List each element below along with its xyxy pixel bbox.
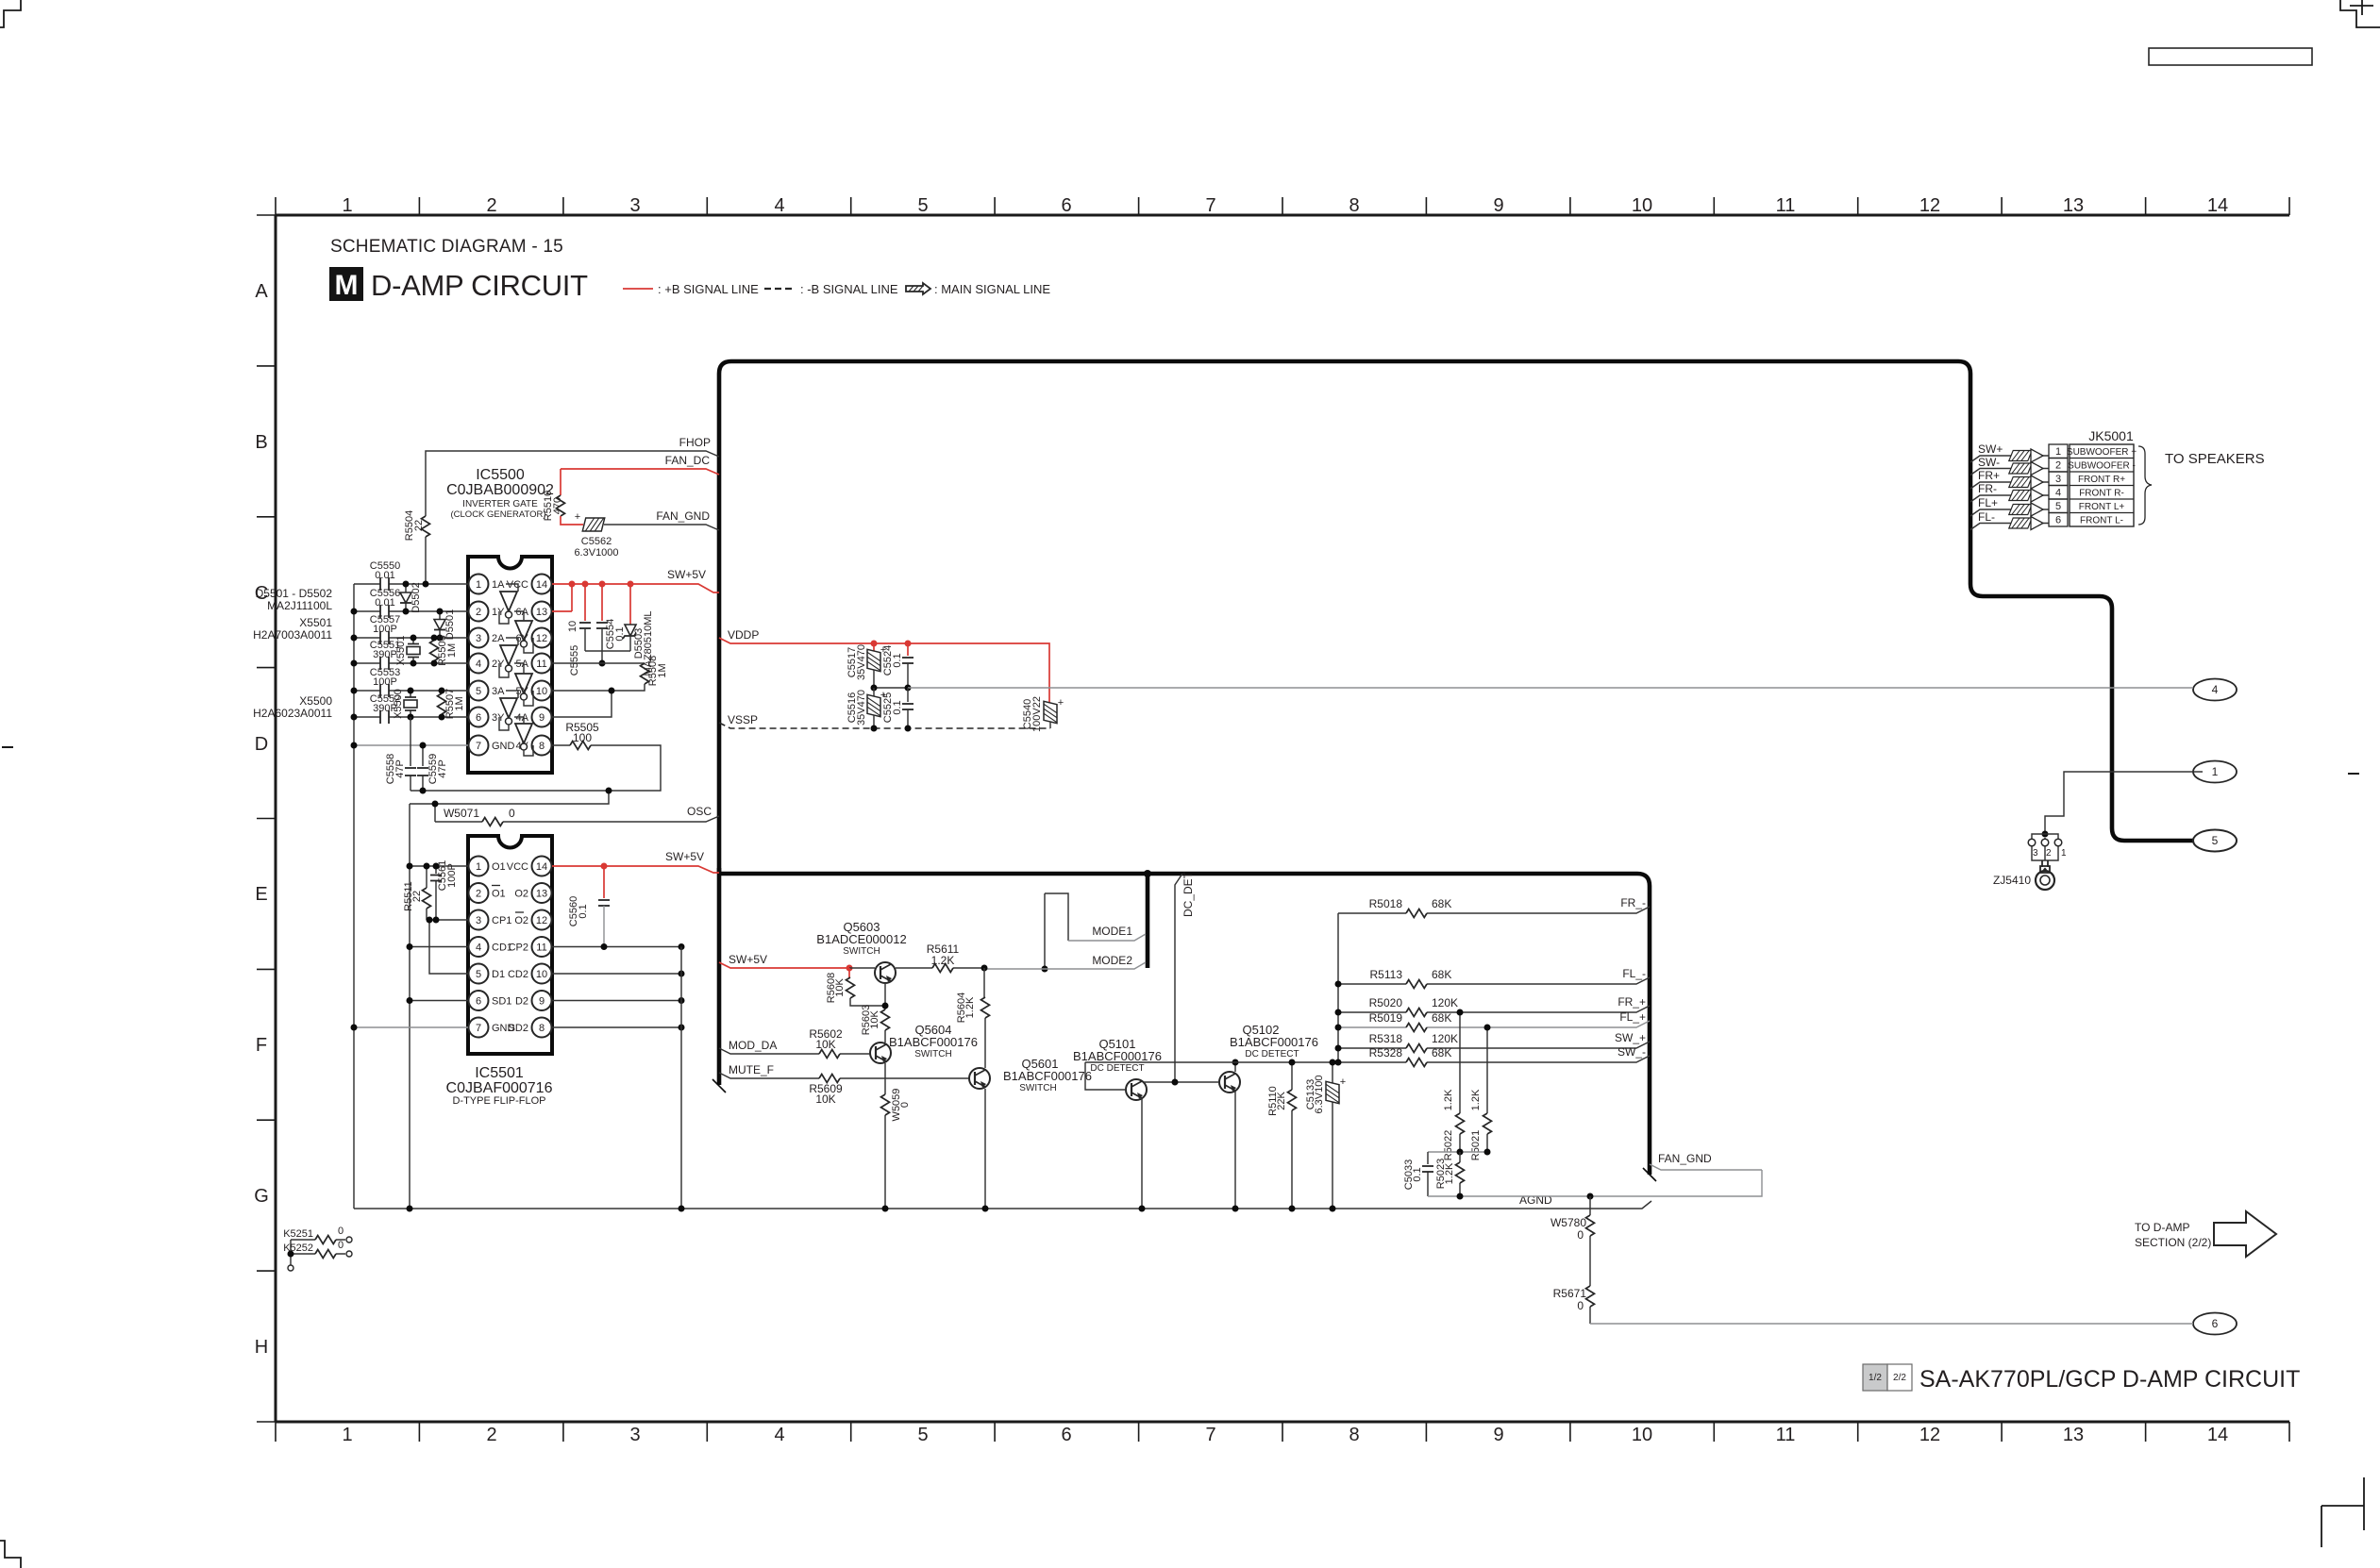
svg-text:SW+5V: SW+5V	[667, 568, 706, 581]
svg-text:120K: 120K	[1432, 996, 1458, 1009]
svg-text:D: D	[255, 734, 268, 755]
svg-text:O2: O2	[514, 915, 528, 926]
svg-text:+: +	[575, 511, 580, 523]
svg-text:R5318: R5318	[1369, 1032, 1403, 1045]
svg-text:1M: 1M	[454, 696, 465, 710]
svg-text:R5020: R5020	[1369, 996, 1403, 1009]
svg-text:FR_+: FR_+	[1617, 995, 1646, 1009]
svg-text:8: 8	[539, 741, 545, 752]
svg-text:SW-: SW-	[1978, 456, 2000, 469]
svg-text:C5555: C5555	[569, 645, 580, 676]
svg-text:H2A7003A0011: H2A7003A0011	[253, 628, 332, 642]
svg-text:0: 0	[338, 1226, 344, 1237]
svg-text:D5502: D5502	[411, 582, 422, 612]
svg-text:10K: 10K	[834, 978, 846, 997]
svg-text:0.01: 0.01	[375, 570, 394, 581]
svg-text:2A: 2A	[492, 633, 505, 644]
svg-text:100: 100	[573, 731, 592, 744]
svg-text:2: 2	[476, 607, 481, 618]
svg-text:0: 0	[1577, 1299, 1584, 1312]
svg-text:100P: 100P	[446, 863, 458, 888]
svg-text:1.2K: 1.2K	[931, 954, 955, 967]
svg-text:10K: 10K	[815, 1093, 835, 1106]
svg-text:6: 6	[476, 996, 481, 1008]
svg-text:47P: 47P	[437, 759, 448, 778]
svg-text:H: H	[255, 1337, 268, 1358]
svg-text:8: 8	[1349, 195, 1359, 216]
svg-text:2: 2	[2055, 460, 2061, 472]
svg-text:2/2: 2/2	[1893, 1373, 1906, 1383]
svg-text:3: 3	[2033, 848, 2038, 859]
svg-text:5: 5	[476, 969, 481, 980]
svg-text:7: 7	[476, 1023, 481, 1034]
svg-text:6: 6	[2212, 1317, 2219, 1330]
svg-text:FL_+: FL_+	[1619, 1010, 1646, 1024]
svg-text:FRONT R+: FRONT R+	[2078, 475, 2125, 485]
svg-text:10: 10	[536, 969, 547, 980]
svg-text:10: 10	[1632, 195, 1652, 216]
svg-text:B1ABCF000176: B1ABCF000176	[1073, 1049, 1162, 1063]
svg-text:1: 1	[2061, 848, 2067, 859]
svg-text:K5252: K5252	[283, 1243, 313, 1254]
svg-text:+: +	[1058, 697, 1064, 709]
svg-text:6: 6	[476, 712, 481, 724]
svg-text:SD2: SD2	[509, 1023, 528, 1034]
svg-text:VDDP: VDDP	[728, 628, 759, 642]
svg-text:12: 12	[1919, 1425, 1940, 1445]
svg-text:11: 11	[1776, 195, 1796, 216]
svg-text:0.1: 0.1	[614, 626, 626, 641]
svg-text:0: 0	[509, 807, 515, 820]
svg-text:2: 2	[2046, 848, 2052, 859]
svg-text:9: 9	[1493, 1425, 1503, 1445]
svg-text:TO D-AMP: TO D-AMP	[2135, 1221, 2189, 1234]
svg-text:SW+: SW+	[1978, 442, 2003, 456]
svg-text:MOD_DA: MOD_DA	[729, 1039, 777, 1052]
svg-text:1: 1	[342, 195, 352, 216]
svg-text:9: 9	[539, 712, 545, 724]
svg-text:SW+5V: SW+5V	[729, 953, 767, 966]
svg-text:14: 14	[536, 579, 547, 591]
svg-text:11: 11	[536, 942, 546, 954]
svg-text:MODE1: MODE1	[1092, 925, 1132, 938]
svg-text:6: 6	[1061, 195, 1071, 216]
svg-text:0.1: 0.1	[1412, 1167, 1423, 1181]
svg-text:SA-AK770PL/GCP D-AMP CIRCUIT: SA-AK770PL/GCP D-AMP CIRCUIT	[1919, 1366, 2300, 1393]
svg-text:4: 4	[2055, 488, 2061, 499]
svg-text:100V22: 100V22	[1031, 696, 1043, 732]
svg-text:22: 22	[413, 520, 425, 531]
svg-text:VCC: VCC	[507, 861, 528, 873]
svg-text:SWITCH: SWITCH	[914, 1049, 951, 1059]
svg-text:9: 9	[1493, 195, 1503, 216]
svg-text:5: 5	[917, 195, 928, 216]
svg-text:E: E	[255, 884, 267, 905]
svg-text:G: G	[254, 1186, 269, 1207]
svg-text:CD2: CD2	[508, 969, 528, 980]
svg-text:FRONT L+: FRONT L+	[2079, 502, 2125, 512]
svg-text:6: 6	[2055, 515, 2061, 526]
svg-text:6: 6	[1061, 1425, 1071, 1445]
svg-text:0.1: 0.1	[578, 904, 589, 918]
svg-text:8: 8	[539, 1023, 545, 1034]
svg-text:1: 1	[2055, 446, 2061, 458]
svg-text:14: 14	[2207, 1425, 2228, 1445]
svg-text:D2: D2	[515, 996, 528, 1008]
svg-text:MUTE_F: MUTE_F	[729, 1063, 774, 1076]
svg-text:0.01: 0.01	[375, 597, 394, 609]
svg-text:H2A6023A0011: H2A6023A0011	[253, 707, 332, 720]
svg-text:1.2K: 1.2K	[1444, 1162, 1455, 1184]
svg-text:FR_-: FR_-	[1620, 896, 1646, 909]
svg-text:14: 14	[536, 861, 547, 873]
svg-text:GND: GND	[492, 741, 515, 752]
svg-text:1A: 1A	[492, 579, 505, 591]
svg-text:SW_+: SW_+	[1615, 1031, 1646, 1044]
svg-text:R5021: R5021	[1470, 1130, 1482, 1160]
svg-text:W5780: W5780	[1550, 1216, 1586, 1229]
svg-text:7: 7	[476, 741, 481, 752]
svg-text:SCHEMATIC DIAGRAM - 15: SCHEMATIC DIAGRAM - 15	[330, 237, 563, 257]
svg-text:B: B	[255, 432, 267, 453]
svg-text:1/2: 1/2	[1869, 1373, 1882, 1383]
svg-text:13: 13	[2063, 195, 2084, 216]
svg-text:B1ADCE000012: B1ADCE000012	[816, 932, 906, 946]
svg-text:4A: 4A	[516, 712, 529, 724]
svg-text:4: 4	[476, 659, 481, 670]
svg-text:4: 4	[774, 1425, 784, 1445]
svg-text:3Y: 3Y	[492, 712, 505, 724]
svg-text:1.2K: 1.2K	[964, 996, 976, 1018]
svg-text:3: 3	[476, 915, 481, 926]
svg-text:4: 4	[2212, 683, 2219, 696]
svg-text:INVERTER GATE: INVERTER GATE	[462, 499, 538, 509]
svg-text:2Y: 2Y	[492, 659, 505, 670]
svg-text:FAN_DC: FAN_DC	[665, 454, 711, 467]
svg-text:5: 5	[917, 1425, 928, 1445]
svg-text:1: 1	[476, 579, 481, 591]
svg-text:D1: D1	[492, 969, 505, 980]
svg-text:FRONT R-: FRONT R-	[2079, 489, 2124, 499]
svg-text:R5328: R5328	[1369, 1046, 1403, 1059]
svg-text:120K: 120K	[1432, 1032, 1458, 1045]
svg-text:10: 10	[536, 686, 547, 697]
svg-text:: +B SIGNAL LINE: : +B SIGNAL LINE	[658, 282, 759, 296]
svg-text:22K: 22K	[1276, 1092, 1287, 1110]
svg-text:35V470: 35V470	[856, 690, 867, 726]
svg-text:1: 1	[476, 861, 481, 873]
svg-text:R5019: R5019	[1369, 1011, 1403, 1025]
svg-text:A: A	[255, 281, 268, 302]
svg-text:D-TYPE FLIP-FLOP: D-TYPE FLIP-FLOP	[452, 1095, 545, 1107]
svg-text:OSC: OSC	[687, 805, 712, 818]
svg-text:2: 2	[486, 195, 496, 216]
svg-text:C0JBAF000716: C0JBAF000716	[446, 1080, 553, 1096]
svg-text:10: 10	[567, 621, 578, 632]
svg-text:R5022: R5022	[1443, 1130, 1454, 1160]
svg-text:6.3V1000: 6.3V1000	[574, 547, 618, 559]
svg-text:R5018: R5018	[1369, 897, 1403, 910]
svg-text:470: 470	[552, 497, 563, 514]
svg-text:FL+: FL+	[1978, 496, 1998, 509]
svg-text:IC5501: IC5501	[475, 1065, 524, 1081]
svg-text:3: 3	[629, 1425, 640, 1445]
svg-text:13: 13	[536, 889, 547, 900]
svg-text:DC DETECT: DC DETECT	[1090, 1063, 1144, 1074]
svg-text:CP2: CP2	[509, 942, 528, 954]
svg-text:1.2K: 1.2K	[1470, 1089, 1482, 1110]
svg-text:K5251: K5251	[283, 1228, 313, 1240]
svg-text:B1ABCF000176: B1ABCF000176	[889, 1035, 978, 1049]
svg-text:1M: 1M	[657, 663, 668, 677]
svg-text:47P: 47P	[394, 759, 406, 778]
svg-text:2: 2	[486, 1425, 496, 1445]
svg-text:12: 12	[536, 915, 547, 926]
svg-text:FRONT L-: FRONT L-	[2080, 516, 2123, 526]
svg-text:FHOP: FHOP	[679, 436, 711, 449]
svg-text:SD1: SD1	[492, 996, 511, 1008]
svg-text:+: +	[1340, 1076, 1346, 1088]
svg-text:1Y: 1Y	[492, 607, 505, 618]
svg-text:1: 1	[342, 1425, 352, 1445]
svg-text:SWITCH: SWITCH	[1019, 1083, 1056, 1093]
svg-text:68K: 68K	[1432, 968, 1451, 981]
svg-text:O1: O1	[492, 889, 506, 900]
svg-text:5: 5	[2055, 501, 2061, 512]
svg-text:0: 0	[1577, 1228, 1584, 1242]
svg-text:O2: O2	[514, 889, 528, 900]
svg-text:6.3V100: 6.3V100	[1314, 1076, 1325, 1114]
svg-text:0.1: 0.1	[892, 653, 903, 667]
svg-text:SW_-: SW_-	[1617, 1045, 1646, 1059]
svg-text:IC5500: IC5500	[476, 467, 525, 483]
svg-text:8: 8	[1349, 1425, 1359, 1445]
svg-text:0: 0	[899, 1102, 911, 1108]
svg-text:R5671: R5671	[1553, 1287, 1587, 1300]
svg-text:MODE2: MODE2	[1092, 954, 1132, 967]
svg-text:JK5001: JK5001	[2088, 428, 2134, 443]
svg-text:2: 2	[476, 889, 481, 900]
svg-text:D-AMP CIRCUIT: D-AMP CIRCUIT	[371, 269, 588, 302]
svg-text:M: M	[335, 270, 359, 301]
svg-text:14: 14	[2207, 195, 2228, 216]
svg-text:10: 10	[1632, 1425, 1652, 1445]
svg-text:10K: 10K	[815, 1038, 835, 1051]
svg-text:22: 22	[411, 891, 423, 902]
svg-text:AGND: AGND	[1519, 1193, 1552, 1207]
svg-text:10K: 10K	[869, 1010, 880, 1029]
svg-text:1M: 1M	[446, 643, 458, 658]
svg-text:C0JBAB000902: C0JBAB000902	[446, 482, 554, 498]
svg-text:11: 11	[1776, 1425, 1796, 1445]
svg-text:13: 13	[2063, 1425, 2084, 1445]
svg-text:O1: O1	[492, 861, 506, 873]
svg-text:100P: 100P	[373, 624, 397, 635]
svg-text:SECTION (2/2): SECTION (2/2)	[2135, 1236, 2211, 1249]
svg-text:X5501: X5501	[299, 616, 332, 629]
svg-text:1: 1	[2212, 765, 2219, 778]
svg-text:0.1: 0.1	[892, 700, 903, 714]
svg-text:FR+: FR+	[1978, 469, 2000, 482]
svg-text:B1ABCF000176: B1ABCF000176	[1003, 1069, 1092, 1083]
svg-text:X5501: X5501	[395, 636, 407, 666]
svg-text:FL_-: FL_-	[1622, 967, 1646, 980]
svg-text:13: 13	[536, 607, 547, 618]
svg-text:0: 0	[338, 1240, 344, 1251]
svg-text:SUBWOOFER -: SUBWOOFER -	[2068, 461, 2136, 472]
svg-text:SW+5V: SW+5V	[665, 850, 704, 863]
svg-text:1.2K: 1.2K	[1443, 1089, 1454, 1110]
svg-text:390P: 390P	[373, 649, 397, 660]
svg-text:5: 5	[2212, 834, 2219, 847]
svg-text:D5501 - D5502: D5501 - D5502	[256, 587, 333, 600]
svg-text:: MAIN SIGNAL LINE: : MAIN SIGNAL LINE	[934, 282, 1050, 296]
svg-text:12: 12	[536, 633, 547, 644]
svg-text:9: 9	[539, 996, 545, 1008]
svg-text:DC_DET: DC_DET	[1182, 871, 1195, 917]
svg-text:68K: 68K	[1432, 1011, 1451, 1025]
svg-text:W5071: W5071	[444, 807, 479, 820]
svg-text:SUBWOOFER +: SUBWOOFER +	[2067, 447, 2137, 458]
svg-text:DC DETECT: DC DETECT	[1245, 1049, 1299, 1059]
svg-text:MA2J11100L: MA2J11100L	[267, 599, 332, 612]
svg-text:R5113: R5113	[1370, 968, 1403, 981]
svg-text:FAN_GND: FAN_GND	[656, 509, 710, 523]
svg-text:35V470: 35V470	[856, 644, 867, 680]
svg-text:F: F	[256, 1035, 267, 1056]
svg-text:68K: 68K	[1432, 1046, 1451, 1059]
svg-text:68K: 68K	[1432, 897, 1451, 910]
svg-text:C5562: C5562	[581, 536, 612, 547]
svg-text:7: 7	[1205, 195, 1215, 216]
svg-text:: -B SIGNAL LINE: : -B SIGNAL LINE	[800, 282, 898, 296]
svg-text:X5500: X5500	[393, 689, 404, 719]
svg-text:FR-: FR-	[1978, 482, 1997, 495]
svg-text:3: 3	[476, 633, 481, 644]
svg-text:11: 11	[536, 659, 546, 670]
svg-text:B1ABCF000176: B1ABCF000176	[1230, 1035, 1318, 1049]
svg-text:SWITCH: SWITCH	[843, 946, 880, 957]
svg-text:CP1: CP1	[492, 915, 511, 926]
svg-text:3: 3	[629, 195, 640, 216]
svg-text:3: 3	[2055, 474, 2061, 485]
svg-text:5A: 5A	[516, 659, 529, 670]
svg-text:4: 4	[774, 195, 784, 216]
svg-text:6A: 6A	[516, 607, 529, 618]
svg-text:7: 7	[1205, 1425, 1215, 1445]
svg-text:X5500: X5500	[299, 694, 332, 708]
svg-text:FL-: FL-	[1978, 510, 1995, 524]
svg-text:TO SPEAKERS: TO SPEAKERS	[2165, 451, 2265, 467]
svg-text:100P: 100P	[373, 676, 397, 688]
svg-text:5: 5	[476, 686, 481, 697]
svg-text:4: 4	[476, 942, 481, 954]
svg-text:ZJ5410: ZJ5410	[1993, 874, 2031, 887]
svg-text:VSSP: VSSP	[728, 713, 758, 726]
svg-text:12: 12	[1919, 195, 1940, 216]
svg-text:3A: 3A	[492, 686, 505, 697]
svg-text:(CLOCK GENERATOR): (CLOCK GENERATOR)	[451, 509, 546, 520]
svg-text:FAN_GND: FAN_GND	[1658, 1152, 1712, 1165]
